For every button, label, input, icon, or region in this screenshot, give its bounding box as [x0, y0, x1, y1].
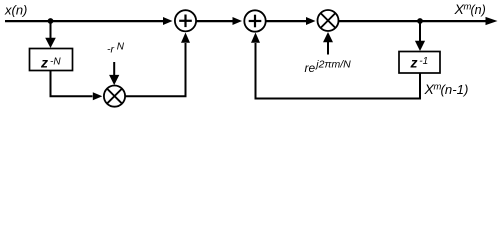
svg-text:N: N [117, 41, 125, 52]
arrowhead into multiplier M2 [306, 17, 316, 25]
wire: coefficient up into multiplier M2 [327, 42, 329, 55]
svg-text:(n-1): (n-1) [441, 82, 469, 97]
arrowhead into top of M1 [109, 75, 119, 85]
arrowhead into z^-1 block [415, 41, 425, 51]
arrowhead into bottom of adder U1 [181, 33, 190, 43]
node B (junction dot on output line) [417, 18, 423, 24]
multiplier M1 (bottom left) [104, 86, 125, 107]
arrowhead into adder U1 [163, 17, 173, 25]
adder U1 [175, 10, 196, 31]
wire: node A down to z^-N block [50, 21, 52, 39]
delay block z^-1 [399, 52, 440, 74]
arrowhead into z^-N block [45, 38, 56, 48]
svg-text:-r: -r [107, 44, 114, 56]
wire: -r^N down into multiplier M1 [113, 62, 115, 75]
delay block z^-N [30, 49, 73, 71]
svg-text:j2πm/N: j2πm/N [314, 58, 351, 70]
arrowhead into multiplier M1 [93, 92, 103, 100]
arrowhead into bottom of adder U2 [251, 33, 260, 43]
svg-text:z: z [40, 55, 48, 71]
node A (junction dot on input line) [48, 18, 54, 24]
wire: node B down to z^-1 block [419, 21, 421, 41]
svg-text:-N: -N [50, 56, 61, 67]
arrowhead output X^m(n) [486, 17, 498, 25]
wire: M2 to output [339, 20, 487, 22]
svg-text:(n): (n) [471, 3, 486, 17]
arrowhead into adder U2 [233, 17, 243, 25]
svg-text:z: z [410, 55, 418, 71]
wire: main input line to first adder [5, 20, 164, 22]
feedback wire: z^-1 down, left along bottom, up into adder U2 [256, 43, 421, 99]
svg-text:x(n): x(n) [4, 3, 27, 18]
adder U2 [244, 10, 265, 31]
wire: adder U1 to adder U2 [196, 20, 233, 22]
wire: M1 output right then up to adder U1 [125, 43, 185, 96]
multiplier M2 (on main line) [318, 10, 339, 31]
wire: adder U2 to multiplier M2 [266, 20, 306, 22]
svg-text:re: re [305, 61, 316, 75]
svg-text:-1: -1 [419, 56, 428, 67]
wire: z^-N block down and right to multiplier M1 [51, 71, 93, 97]
arrowhead into bottom of M2 [323, 32, 333, 42]
